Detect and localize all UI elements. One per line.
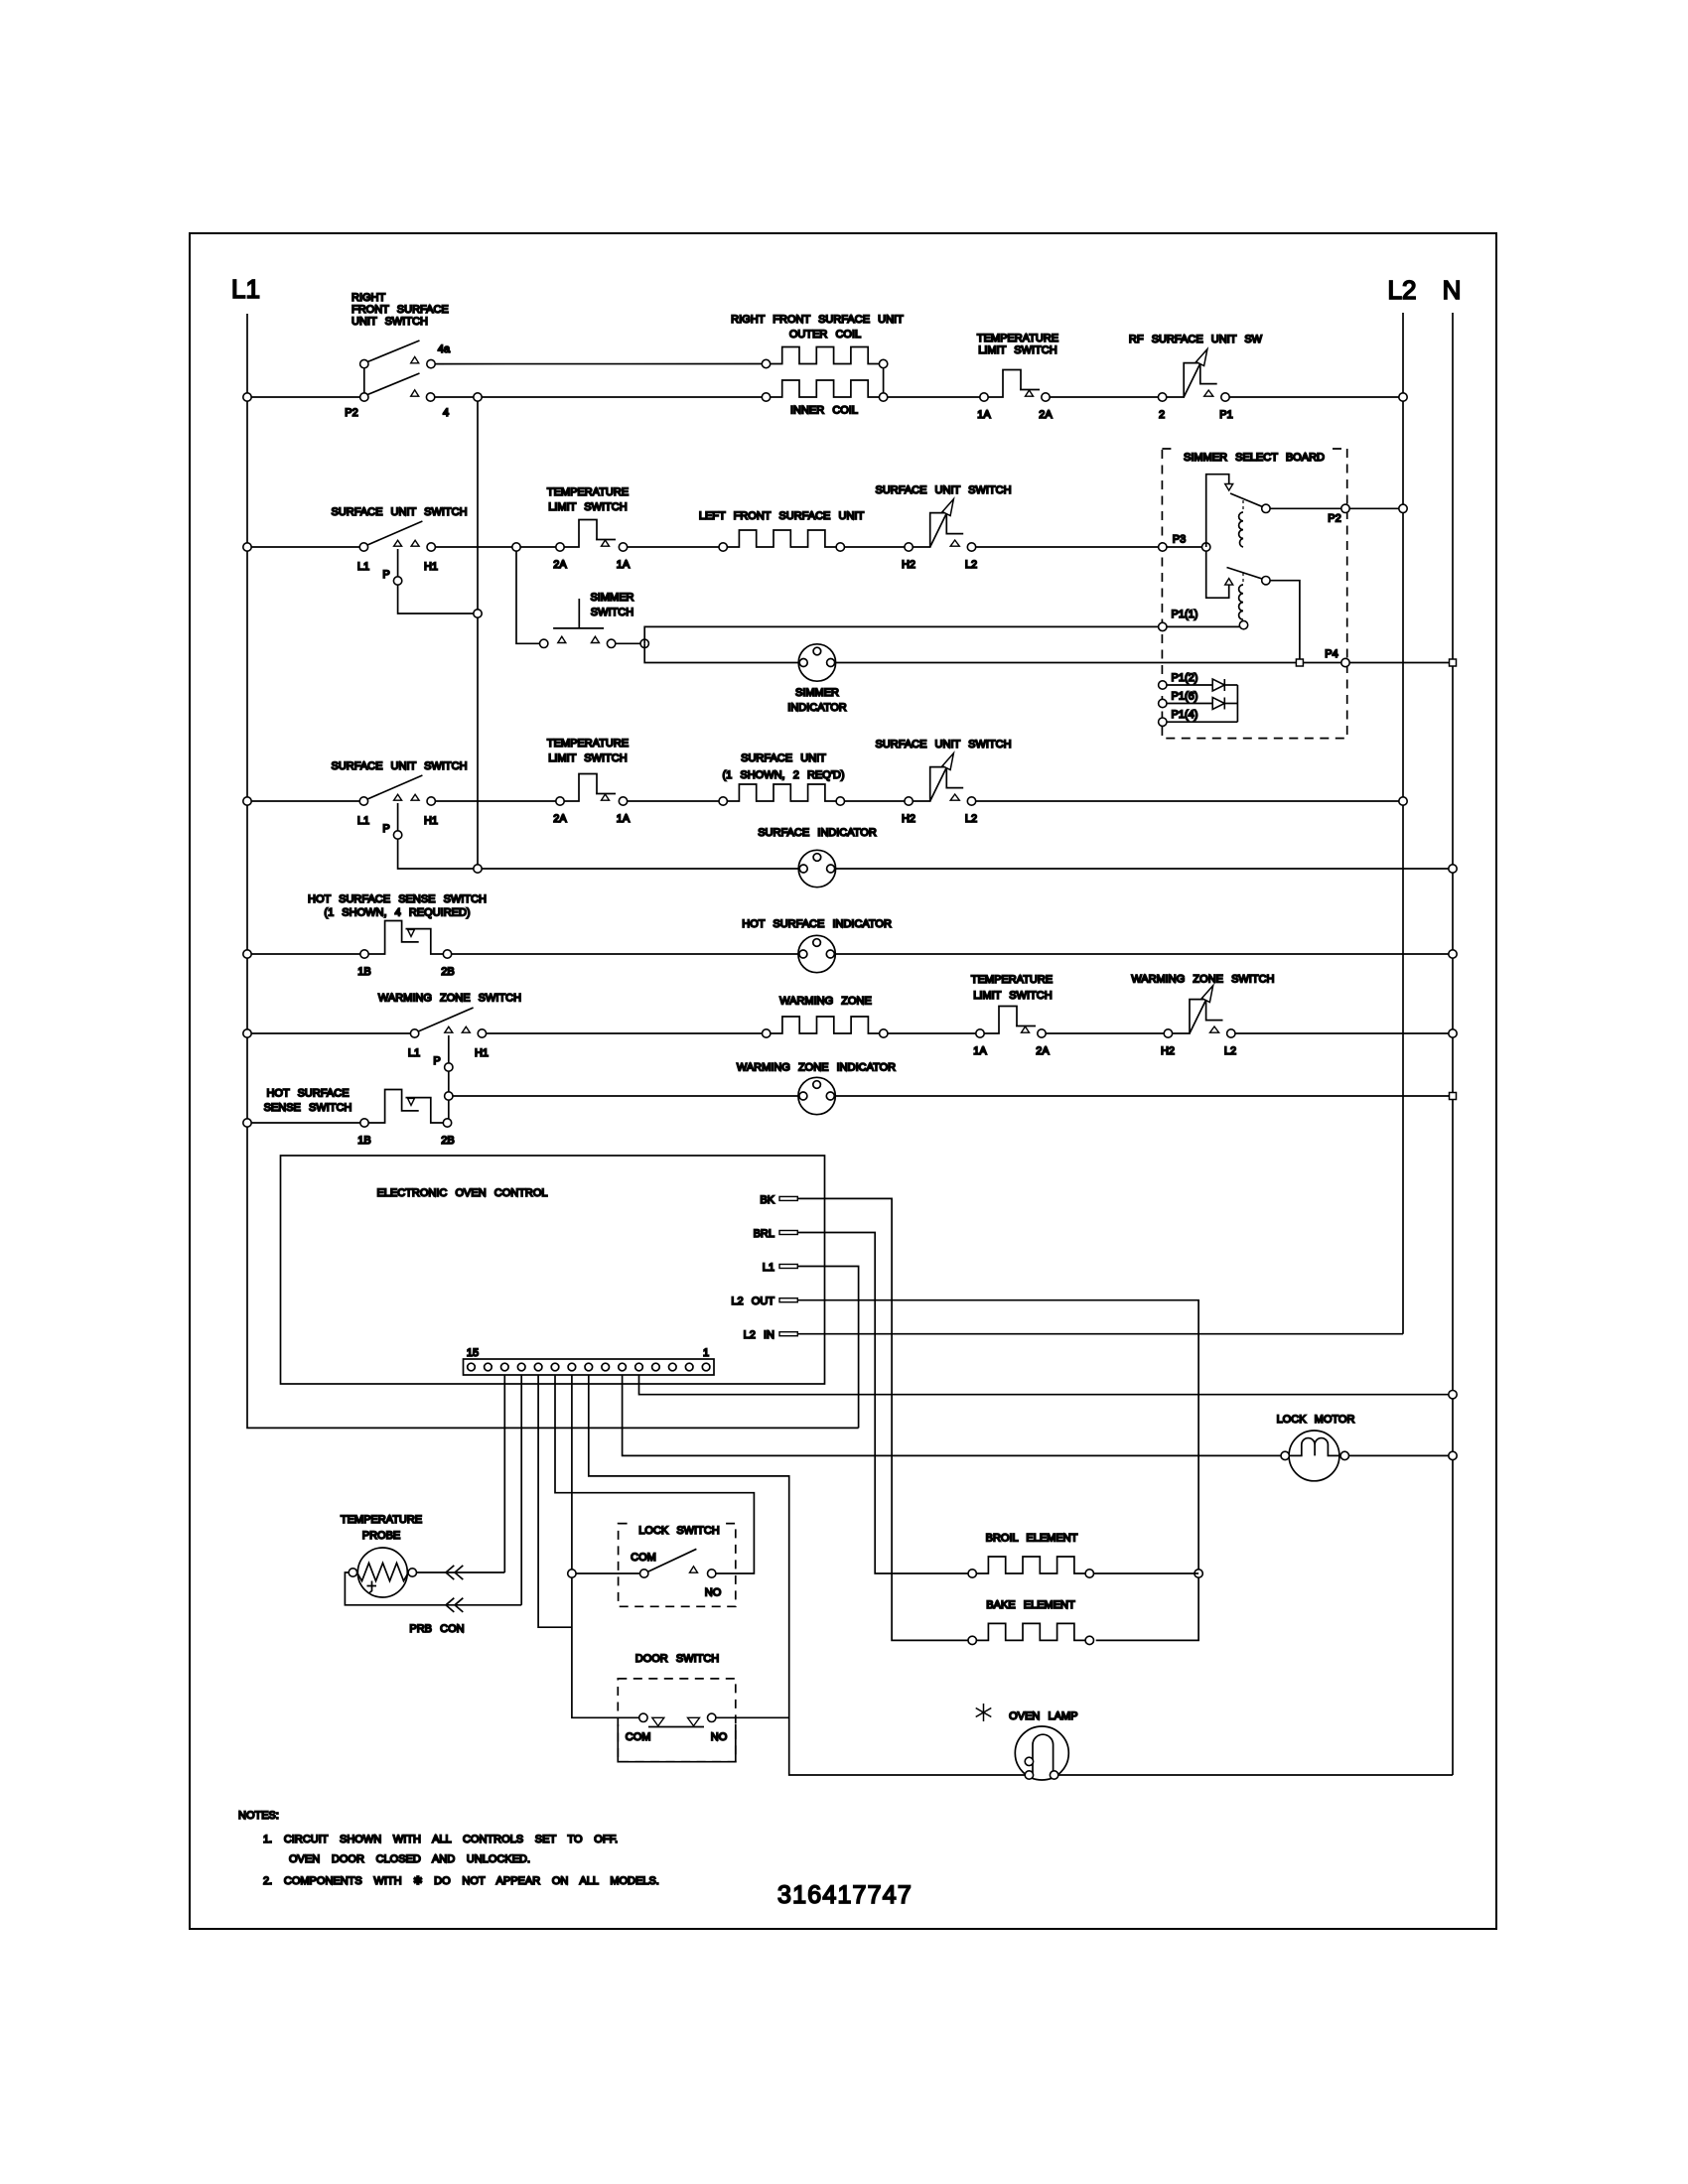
coil relay K1 [1239, 500, 1243, 547]
wire coil to 1A row5 [888, 1032, 976, 1034]
wire row2 P branch [398, 585, 478, 614]
terminal P1(6) [1159, 699, 1167, 707]
junction row4 at N [1449, 950, 1457, 958]
svg-text:(1 SHOWN, 4 REQUIRED): (1 SHOWN, 4 REQUIRED) [324, 907, 470, 919]
wire probe upper to pin13 [417, 1571, 505, 1573]
junction surface indicator at N [1449, 865, 1457, 873]
wire L1 bus vertical [247, 314, 859, 1428]
lamp warming zone indicator [798, 1077, 835, 1114]
svg-text:UNIT SWITCH: UNIT SWITCH [352, 316, 428, 328]
switch lock [640, 1549, 716, 1577]
svg-text:15: 15 [467, 1347, 479, 1359]
wire row2 L1 to switch [247, 546, 359, 548]
wire row3 P branch to indicator row [398, 839, 799, 869]
wire broil right to L2 OUT [1094, 1572, 1199, 1574]
junction row1 x481 [474, 393, 482, 401]
svg-text:L2: L2 [1224, 1045, 1236, 1057]
wire probe lower loop to pin12 [345, 1572, 521, 1605]
wire P1(2) with diode D1 [1167, 684, 1212, 686]
junction simmer split [640, 639, 648, 647]
switch surface unit row3 right [905, 753, 976, 806]
junction row6 at L1 [243, 1119, 251, 1127]
svg-text:H2: H2 [902, 813, 915, 825]
terminal P2 on board edge [1341, 504, 1349, 512]
wire 4 to inner coil [435, 396, 763, 398]
svg-text:2A: 2A [553, 559, 567, 571]
wire K1 contact to P2 [1270, 507, 1341, 509]
wire L2 IN to L2 bus [797, 1333, 1403, 1335]
svg-text:2A: 2A [1039, 409, 1053, 421]
relay K2 frame [1206, 551, 1270, 598]
wire coil to H2 row2 [845, 546, 905, 548]
wire row3 L1 to switch [247, 800, 359, 802]
svg-text:L2 IN: L2 IN [744, 1329, 774, 1341]
svg-text:1B: 1B [357, 1135, 370, 1147]
wire BK to bake element [797, 1198, 968, 1640]
wire L2 to N row5 [1235, 1032, 1454, 1034]
terminal P1(2) [1159, 681, 1167, 689]
svg-text:2: 2 [1159, 409, 1165, 421]
svg-text:HOT SURFACE: HOT SURFACE [266, 1088, 349, 1100]
wire pin12 to probe return [520, 1375, 522, 1605]
svg-text:P: P [382, 823, 389, 835]
svg-text:SWITCH: SWITCH [591, 607, 633, 618]
wire K2 contact drop to P4 [1270, 581, 1300, 659]
connector chevrons lower [446, 1598, 463, 1612]
junction P2 at L2 [1399, 504, 1407, 512]
switch warming zone left [410, 1008, 486, 1071]
junction row1 at L1 [243, 393, 251, 401]
svg-text:COM: COM [626, 1731, 651, 1743]
switch surface unit row2 left [359, 521, 435, 585]
wire surface indicator to N [836, 868, 1453, 870]
svg-text:L1: L1 [357, 815, 369, 827]
svg-text:PROBE: PROBE [362, 1530, 401, 1542]
wire vertical x481 row1 to surface indicator row [477, 401, 479, 869]
svg-text:INNER COIL: INNER COIL [790, 405, 858, 417]
svg-text:WARMING ZONE: WARMING ZONE [779, 996, 872, 1008]
junction x481 on indicator row [474, 865, 482, 873]
coil relay K2 [1239, 573, 1243, 619]
border frame [190, 233, 1496, 1929]
svg-text:SURFACE UNIT SWITCH: SURFACE UNIT SWITCH [875, 739, 1011, 751]
wire L2 OUT to elements [797, 1300, 1198, 1641]
svg-text:L1: L1 [408, 1047, 420, 1059]
svg-text:P4: P4 [1325, 648, 1337, 660]
svg-text:LEFT FRONT SURFACE UNIT: LEFT FRONT SURFACE UNIT [699, 510, 865, 522]
wire L2 to L2 bus row3 [976, 800, 1403, 802]
wire row2 H1 to 2A [435, 546, 555, 548]
svg-text:RIGHT: RIGHT [352, 292, 386, 304]
svg-text:4a: 4a [438, 343, 451, 355]
svg-text:2A: 2A [553, 813, 567, 825]
wire inner coil to 1A [888, 396, 980, 398]
svg-text:TEMPERATURE: TEMPERATURE [341, 1514, 422, 1526]
wire simmer indicator to P4 [836, 662, 1341, 664]
switch warming zone right [1164, 986, 1235, 1037]
terminal P4 on board edge [1341, 658, 1349, 666]
wire 2A to RF switch [1050, 396, 1158, 398]
connector chevrons upper [446, 1566, 463, 1579]
svg-text:L1: L1 [763, 1262, 774, 1274]
svg-text:1A: 1A [973, 1045, 987, 1057]
svg-text:PRB CON: PRB CON [409, 1623, 464, 1635]
wire L1 terminal to L1 bus [797, 1267, 858, 1429]
relay K1 frame [1206, 475, 1270, 547]
wire pin10 to lock NO [555, 1375, 754, 1573]
wire hot surface indicator to N [835, 953, 1453, 955]
svg-text:OUTER COIL: OUTER COIL [789, 329, 861, 341]
svg-text:1. CIRCUIT SHOWN WITH ALL: 1. CIRCUIT SHOWN WITH ALL CONTROLS SET T… [263, 1834, 618, 1845]
lamp surface indicator [798, 850, 835, 887]
svg-text:P: P [382, 569, 389, 581]
wire 1A to coil row2 [628, 546, 719, 548]
svg-text:P1(4): P1(4) [1172, 709, 1198, 721]
lamp hot surface indicator [798, 935, 835, 972]
svg-text:BROIL ELEMENT: BROIL ELEMENT [986, 1533, 1078, 1545]
svg-text:L2 OUT: L2 OUT [731, 1296, 774, 1307]
resistor left front surface unit [719, 530, 845, 551]
wire coil to H2 row3 [845, 800, 905, 802]
resistor bake element [968, 1623, 1094, 1644]
svg-text:H2: H2 [902, 559, 915, 571]
svg-text:NO: NO [711, 1731, 728, 1743]
terminal L2 IN [779, 1332, 797, 1336]
svg-text:H1: H1 [424, 561, 438, 573]
box door switch (dashed) [618, 1679, 736, 1762]
switch surface unit row2 right [905, 499, 976, 552]
wire P1(4) to bus [1167, 721, 1237, 723]
junction row5 at L1 [243, 1029, 251, 1037]
svg-text:1: 1 [703, 1347, 709, 1359]
svg-text:2B: 2B [441, 966, 454, 978]
svg-text:LIMIT SWITCH: LIMIT SWITCH [978, 344, 1056, 356]
svg-text:COM: COM [631, 1552, 656, 1564]
junction row5 at N [1449, 1029, 1457, 1037]
wire P1(1) to K2 coil [1167, 625, 1239, 627]
terminal P1(1) on board edge [1159, 622, 1167, 630]
wire row6 L1 to 1B [247, 1122, 360, 1124]
junction row4 at L1 [243, 950, 251, 958]
switch right front surface unit (P2/4/4a) [360, 341, 436, 401]
svg-text:SIMMER: SIMMER [591, 592, 634, 604]
svg-text:H1: H1 [424, 815, 438, 827]
svg-text:HOT SURFACE INDICATOR: HOT SURFACE INDICATOR [742, 918, 892, 930]
svg-text:SURFACE UNIT: SURFACE UNIT [741, 752, 826, 764]
terminal P1(4) [1159, 718, 1167, 726]
svg-text:RIGHT FRONT SURFACE UNIT: RIGHT FRONT SURFACE UNIT [731, 314, 904, 326]
svg-text:P2: P2 [1328, 513, 1340, 525]
svg-text:FRONT SURFACE: FRONT SURFACE [352, 304, 449, 316]
svg-text:BRL: BRL [754, 1228, 774, 1240]
svg-text:WARMING ZONE INDICATOR: WARMING ZONE INDICATOR [737, 1062, 896, 1074]
motor lock motor [1281, 1431, 1349, 1481]
svg-text:NOTES:: NOTES: [238, 1810, 279, 1822]
svg-text:L2: L2 [1388, 275, 1417, 305]
svg-text:LOCK MOTOR: LOCK MOTOR [1277, 1414, 1355, 1426]
resistor right front outer coil [762, 347, 888, 368]
svg-text:BK: BK [760, 1194, 774, 1206]
svg-text:1A: 1A [617, 813, 631, 825]
wire lock COM feed [576, 1572, 639, 1574]
switch hot surface sense row6 [360, 1090, 452, 1128]
wire oven lamp to N [1058, 1774, 1453, 1776]
wire simmer split up to P1(1) [644, 626, 1158, 643]
svg-text:SENSE SWITCH: SENSE SWITCH [264, 1102, 352, 1114]
svg-text:316417747: 316417747 [777, 1881, 913, 1909]
svg-text:TEMPERATURE: TEMPERATURE [547, 738, 629, 750]
svg-text:L2: L2 [965, 813, 977, 825]
wire L2 bus vertical [1402, 313, 1404, 1334]
wire 4a to outer coil [435, 363, 762, 365]
svg-text:4: 4 [443, 407, 449, 419]
svg-text:DOOR SWITCH: DOOR SWITCH [635, 1653, 720, 1665]
junction warming indicator branch [445, 1092, 453, 1100]
wire row3 H1 to 2A [435, 800, 555, 802]
wire P1(6) with diode D2 [1167, 703, 1212, 705]
wire N bus vertical [1452, 313, 1454, 1775]
svg-text:2A: 2A [1036, 1045, 1050, 1057]
svg-text:P1(1): P1(1) [1172, 609, 1198, 620]
svg-text:(1 SHOWN, 2 REQ'D): (1 SHOWN, 2 REQ'D) [723, 769, 845, 781]
svg-text:P1(2): P1(2) [1172, 672, 1198, 684]
wire pin11 to com bus [538, 1375, 572, 1627]
wire warming indicator to N [835, 1095, 1453, 1097]
terminal BRL [779, 1231, 797, 1235]
resistor warming zone [763, 1017, 889, 1037]
wire BRL to broil element [797, 1233, 968, 1574]
junction row2 at L1 [243, 543, 251, 551]
svg-text:HOT SURFACE SENSE SWITCH: HOT SURFACE SENSE SWITCH [308, 893, 487, 905]
wire simmer branch vertical [516, 551, 540, 643]
wire P4 to N [1349, 662, 1453, 664]
wire 2A to H2 row5 [1046, 1032, 1164, 1034]
junction lock COM branch [568, 1570, 576, 1577]
wire coil join vertical [883, 368, 885, 393]
junction relay feed [1202, 543, 1210, 551]
svg-text:P2: P2 [345, 407, 357, 419]
terminal L2 OUT [779, 1298, 797, 1302]
junction lock motor at N [1449, 1451, 1457, 1459]
svg-text:SURFACE UNIT SWITCH: SURFACE UNIT SWITCH [331, 760, 467, 772]
thermal limit switch row2 (2A-1A mirrored) [556, 520, 628, 552]
svg-text:LIMIT SWITCH: LIMIT SWITCH [548, 501, 627, 513]
svg-text:LIMIT SWITCH: LIMIT SWITCH [548, 752, 627, 764]
wire warming indicator row [453, 1095, 798, 1097]
connector strip 15..1 [464, 1359, 715, 1375]
switch RF surface unit sw [1158, 349, 1229, 402]
svg-text:TEMPERATURE: TEMPERATURE [971, 974, 1053, 986]
wire pin8 to door NO and oven lamp [589, 1375, 1025, 1775]
svg-text:SURFACE INDICATOR: SURFACE INDICATOR [758, 827, 877, 839]
switch hot surface sense row4 [360, 921, 452, 959]
wire lock motor to N [1349, 1454, 1454, 1456]
wire pin9 to lock COM and door COM [572, 1375, 639, 1717]
wire door NO to pin8 drop [716, 1716, 789, 1718]
svg-text:BAKE ELEMENT: BAKE ELEMENT [986, 1599, 1075, 1611]
box lock switch (dashed) [619, 1524, 736, 1607]
svg-text:L2: L2 [965, 559, 977, 571]
svg-text:P1(6): P1(6) [1172, 691, 1198, 703]
terminal K2 coil bottom [1239, 620, 1247, 628]
symbol asterisk oven lamp [976, 1704, 992, 1721]
wire pin13 to probe [503, 1375, 505, 1572]
svg-text:TEMPERATURE: TEMPERATURE [547, 486, 629, 498]
junction row3 at L2 [1399, 797, 1407, 805]
terminal P3 on board edge [1159, 543, 1167, 551]
wire P1 to L2 [1229, 396, 1403, 398]
svg-text:NO: NO [705, 1587, 722, 1599]
wire L2 to P3 [976, 546, 1159, 548]
svg-text:WARMING ZONE SWITCH: WARMING ZONE SWITCH [1131, 974, 1274, 986]
svg-text:OVEN DOOR CLOSED AND UNLOC: OVEN DOOR CLOSED AND UNLOCKED. [289, 1853, 530, 1865]
svg-text:1A: 1A [977, 409, 991, 421]
terminal BK [779, 1196, 797, 1200]
svg-text:SURFACE UNIT SWITCH: SURFACE UNIT SWITCH [875, 484, 1011, 496]
wire P3 to relay junction [1167, 546, 1206, 548]
svg-text:L1: L1 [231, 274, 260, 304]
wire P2 to L2 [1349, 507, 1403, 509]
junction pin5 wire at N [1449, 1391, 1457, 1399]
svg-text:ELECTRONIC OVEN CONTROL: ELECTRONIC OVEN CONTROL [376, 1187, 547, 1199]
wire 2B to hot surface indicator [452, 953, 799, 955]
junction broil right on L2 OUT [1195, 1570, 1202, 1577]
svg-text:RF SURFACE UNIT SW: RF SURFACE UNIT SW [1129, 334, 1263, 345]
junction P4 at N [1450, 659, 1457, 666]
svg-text:LIMIT SWITCH: LIMIT SWITCH [973, 990, 1052, 1002]
wire row5 L1 to switch [247, 1032, 410, 1034]
junction P4 relay drop [1296, 659, 1303, 666]
box simmer select board (dashed) [1162, 449, 1346, 739]
svg-text:2B: 2B [441, 1135, 454, 1147]
wire simmer split down to indicator [644, 643, 798, 662]
svg-text:1A: 1A [617, 559, 631, 571]
wire row4 L1 to 1B [247, 953, 360, 955]
resistor broil element [968, 1557, 1094, 1577]
svg-text:N: N [1443, 275, 1462, 305]
junction P branch x481 [474, 610, 482, 617]
thermal limit switch row5 [976, 1007, 1046, 1038]
svg-text:2. COMPONENTS WITH ✱ DO N: 2. COMPONENTS WITH ✱ DO NOT APPEAR ON AL… [263, 1875, 659, 1887]
lamp simmer indicator [798, 644, 835, 681]
svg-text:SIMMER: SIMMER [795, 687, 839, 699]
wire 1A to coil row3 [628, 800, 719, 802]
junction warming indicator at N [1450, 1093, 1457, 1100]
junction simmer branch [512, 543, 520, 551]
wire pin5 to N [639, 1375, 1454, 1395]
junction row1 at L2 [1399, 393, 1407, 401]
temperature probe [349, 1548, 416, 1597]
svg-text:P: P [433, 1055, 440, 1067]
wire row5 H1 to coil [487, 1032, 763, 1034]
thermal limit switch row3 (2A-1A mirrored) [556, 774, 628, 806]
terminal L1 [779, 1265, 797, 1269]
svg-text:OVEN LAMP: OVEN LAMP [1009, 1710, 1077, 1722]
switch surface unit row3 left [359, 775, 435, 839]
svg-text:TEMPERATURE: TEMPERATURE [977, 333, 1058, 344]
wire row5 P branch down [448, 1071, 450, 1119]
svg-text:P1: P1 [1219, 409, 1232, 421]
svg-text:H1: H1 [475, 1047, 489, 1059]
switch door [639, 1713, 716, 1726]
wire diode bus vertical [1236, 685, 1238, 722]
svg-text:L1: L1 [357, 561, 369, 573]
svg-text:1B: 1B [357, 966, 370, 978]
svg-text:SIMMER SELECT BOARD: SIMMER SELECT BOARD [1184, 452, 1325, 464]
wire simmer switch to split [616, 642, 644, 644]
svg-text:P3: P3 [1173, 534, 1186, 546]
resistor right front inner coil [762, 380, 888, 401]
resistor surface unit row3 [719, 784, 845, 805]
thermal limit switch row1 [980, 370, 1050, 402]
svg-text:INDICATOR: INDICATOR [787, 702, 847, 714]
box electronic oven control [281, 1156, 825, 1384]
lamp oven lamp [1015, 1726, 1068, 1780]
svg-text:LOCK SWITCH: LOCK SWITCH [638, 1525, 720, 1537]
svg-text:H2: H2 [1161, 1045, 1175, 1057]
svg-text:WARMING ZONE SWITCH: WARMING ZONE SWITCH [378, 993, 521, 1005]
wire row1 L1 to switch P2 [247, 396, 360, 398]
svg-text:SURFACE UNIT SWITCH: SURFACE UNIT SWITCH [331, 506, 467, 518]
junction row3 at L1 [243, 797, 251, 805]
switch simmer [540, 599, 616, 648]
wire pin6 to lock motor [623, 1375, 1281, 1455]
